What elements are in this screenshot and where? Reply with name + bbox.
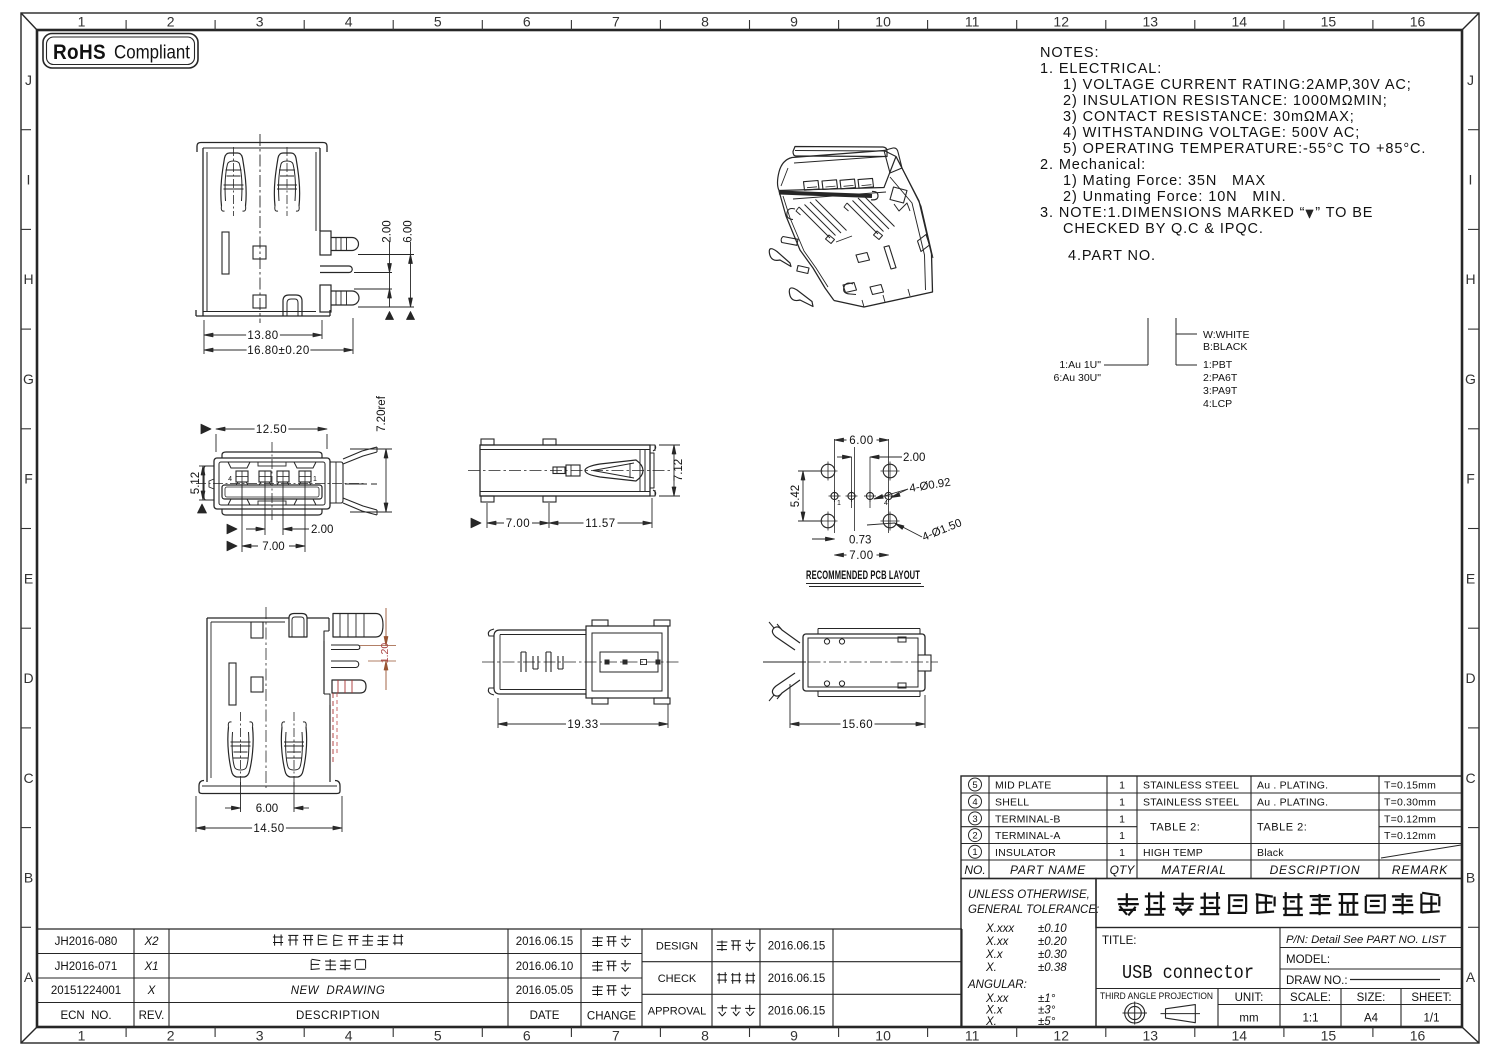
- svg-text:DESCRIPTION: DESCRIPTION: [296, 1010, 380, 1022]
- svg-text:±0.30: ±0.30: [1038, 949, 1067, 961]
- dimension 14.50: [196, 796, 342, 835]
- svg-text:±0.20: ±0.20: [1038, 936, 1067, 948]
- svg-text:19.33: 19.33: [567, 719, 598, 731]
- svg-text:2.00: 2.00: [311, 524, 333, 536]
- svg-text:8: 8: [701, 1028, 709, 1044]
- dimension 13.80: [204, 320, 322, 354]
- svg-text:Black: Black: [1257, 847, 1284, 859]
- dimension 12.50: [201, 424, 327, 452]
- company name block (Chinese): [1096, 879, 1462, 928]
- svg-text:5: 5: [434, 1028, 442, 1044]
- svg-text:1: 1: [837, 500, 841, 507]
- svg-text:2016.06.15: 2016.06.15: [768, 973, 826, 985]
- svg-text:4:LCP: 4:LCP: [1203, 398, 1232, 410]
- svg-text:6: 6: [523, 14, 531, 30]
- dimension 0.73: [812, 535, 871, 547]
- svg-text:B: B: [1466, 870, 1475, 886]
- svg-text:7.00: 7.00: [506, 518, 530, 530]
- svg-text:ECN NO.: ECN NO.: [60, 1010, 111, 1022]
- svg-text:±0.10: ±0.10: [1038, 923, 1067, 935]
- svg-text:4-Ø1.50: 4-Ø1.50: [921, 517, 964, 544]
- svg-text:D: D: [1465, 670, 1475, 686]
- svg-text:A: A: [24, 969, 34, 985]
- svg-text:13.80: 13.80: [247, 330, 278, 342]
- svg-text:REV.: REV.: [139, 1010, 165, 1022]
- svg-text:4: 4: [345, 1028, 353, 1044]
- general tolerance block: [961, 879, 1099, 1029]
- svg-text:INSULATOR: INSULATOR: [995, 847, 1056, 859]
- svg-text:X.xx: X.xx: [985, 993, 1010, 1005]
- svg-text:CHECK: CHECK: [658, 973, 697, 985]
- svg-text:12: 12: [1053, 1028, 1069, 1044]
- svg-text:JH2016-080: JH2016-080: [55, 936, 118, 948]
- svg-text:QTY: QTY: [1110, 863, 1136, 877]
- svg-text:14: 14: [1232, 14, 1248, 30]
- svg-text:9: 9: [790, 14, 798, 30]
- svg-text:JH2016-071: JH2016-071: [55, 961, 118, 973]
- svg-text:2: 2: [167, 1028, 175, 1044]
- svg-text:12: 12: [1053, 14, 1069, 30]
- dimension 2.00 contact pitch: [227, 482, 333, 552]
- svg-text:1: 1: [1119, 797, 1125, 809]
- svg-text:11: 11: [965, 14, 980, 30]
- svg-text:10: 10: [875, 14, 891, 30]
- svg-text:4: 4: [884, 500, 888, 507]
- svg-text:E: E: [24, 570, 33, 586]
- svg-text:1/1: 1/1: [1424, 1013, 1440, 1025]
- svg-text:1: 1: [78, 14, 86, 30]
- svg-text:15: 15: [1321, 14, 1337, 30]
- svg-text:16: 16: [1410, 14, 1426, 30]
- svg-text:11: 11: [965, 1028, 980, 1044]
- svg-text:12.50: 12.50: [256, 424, 287, 436]
- svg-text:GENERAL TOLERANCE:: GENERAL TOLERANCE:: [968, 904, 1099, 916]
- svg-text:E: E: [1466, 570, 1475, 586]
- svg-text:±1°: ±1°: [1038, 993, 1056, 1005]
- svg-text:DATE: DATE: [530, 1010, 560, 1022]
- svg-text:2) Unmating Force: 10N MIN.: 2) Unmating Force: 10N MIN.: [1063, 189, 1287, 205]
- svg-text:J: J: [25, 72, 32, 88]
- svg-text:T=0.30mm: T=0.30mm: [1384, 797, 1436, 809]
- svg-text:1: 1: [1119, 830, 1125, 842]
- rear side elevation view: [199, 607, 383, 794]
- svg-text:11.57: 11.57: [585, 518, 615, 530]
- svg-text:5) OPERATING TEMPERATURE:-55°C: 5) OPERATING TEMPERATURE:-55°C TO +85°C.: [1063, 141, 1426, 157]
- svg-text:1: 1: [1119, 813, 1125, 825]
- svg-text:Au . PLATING.: Au . PLATING.: [1257, 797, 1328, 809]
- svg-text:±5°: ±5°: [1038, 1016, 1056, 1028]
- svg-text:F: F: [24, 471, 33, 487]
- svg-text:X: X: [147, 985, 157, 997]
- svg-text:1) Mating Force: 35N MAX: 1) Mating Force: 35N MAX: [1063, 173, 1266, 189]
- notes text block: [1040, 45, 1426, 264]
- dimension 16.80±0.20: [204, 318, 353, 357]
- svg-text:SCALE:: SCALE:: [1290, 992, 1331, 1004]
- svg-text:7: 7: [612, 14, 620, 30]
- svg-text:X.xx: X.xx: [985, 936, 1010, 948]
- svg-text:G: G: [23, 371, 34, 387]
- svg-text:±0.38: ±0.38: [1038, 962, 1067, 974]
- dimension 6.00 hole pitch: [835, 435, 889, 447]
- svg-text:3:PA9T: 3:PA9T: [1203, 385, 1238, 397]
- svg-text:5: 5: [434, 14, 442, 30]
- svg-text:7.00: 7.00: [262, 541, 284, 553]
- svg-text:DESCRIPTION: DESCRIPTION: [1270, 863, 1361, 877]
- svg-text:A4: A4: [1364, 1013, 1379, 1025]
- dimension 6.00 contact spacing: [225, 782, 309, 815]
- svg-text:X.: X.: [985, 962, 997, 974]
- svg-text:MATERIAL: MATERIAL: [1161, 863, 1227, 877]
- svg-text:W:WHITE: W:WHITE: [1203, 329, 1249, 341]
- svg-text:1:PBT: 1:PBT: [1203, 359, 1233, 371]
- svg-text:ANGULAR:: ANGULAR:: [967, 979, 1027, 991]
- dimension 5.12: [190, 466, 210, 513]
- svg-text:3. NOTE:1.DIMENSIONS MARKED “: 3. NOTE:1.DIMENSIONS MARKED “ ” TO BE: [1040, 205, 1373, 221]
- svg-text:P/N: Detail See PART NO. LIST: P/N: Detail See PART NO. LIST: [1286, 934, 1447, 946]
- svg-text:14: 14: [1232, 1028, 1248, 1044]
- svg-text:5.12: 5.12: [190, 472, 202, 494]
- svg-text:16.80±0.20: 16.80±0.20: [247, 345, 309, 357]
- svg-text:X1: X1: [143, 961, 158, 973]
- svg-text:TABLE 2:: TABLE 2:: [1150, 822, 1200, 834]
- svg-text:T=0.12mm: T=0.12mm: [1384, 830, 1436, 842]
- dimension 7.00 contact span: [227, 540, 305, 553]
- svg-text:1) VOLTAGE CURRENT RATING:2AMP: 1) VOLTAGE CURRENT RATING:2AMP,30V AC;: [1063, 77, 1412, 93]
- svg-text:1. ELECTRICAL:: 1. ELECTRICAL:: [1040, 61, 1162, 77]
- svg-text:CHECKED BY Q.C & IPQC.: CHECKED BY Q.C & IPQC.: [1063, 221, 1264, 237]
- svg-text:SIZE:: SIZE:: [1357, 992, 1386, 1004]
- svg-text:T=0.15mm: T=0.15mm: [1384, 780, 1436, 792]
- svg-text:RoHS: RoHS: [53, 41, 106, 64]
- svg-text:RECOMMENDED PCB LAYOUT: RECOMMENDED PCB LAYOUT: [806, 570, 920, 582]
- svg-text:NOTES:: NOTES:: [1040, 45, 1099, 61]
- svg-text:1.20: 1.20: [379, 643, 391, 664]
- svg-text:15: 15: [1321, 1028, 1337, 1044]
- svg-text:7.12: 7.12: [673, 459, 685, 481]
- svg-text:DESIGN: DESIGN: [656, 940, 698, 952]
- svg-text:HIGH TEMP: HIGH TEMP: [1143, 847, 1203, 859]
- svg-text:SHEET:: SHEET:: [1411, 992, 1451, 1004]
- svg-text:20151224001: 20151224001: [51, 985, 121, 997]
- svg-text:1: 1: [313, 476, 317, 483]
- svg-text:I: I: [27, 172, 31, 188]
- svg-text:7.00: 7.00: [849, 550, 873, 562]
- svg-text:CHANGE: CHANGE: [587, 1011, 637, 1023]
- dimension 19.33: [498, 698, 668, 731]
- bottom plan view of USB connector: [482, 620, 680, 704]
- svg-text:3: 3: [972, 814, 977, 825]
- svg-text:mm: mm: [1239, 1013, 1258, 1025]
- dimension 5.42: [790, 471, 823, 521]
- svg-text:1:Au 1U": 1:Au 1U": [1059, 359, 1101, 371]
- svg-text:MID PLATE: MID PLATE: [995, 780, 1051, 792]
- RoHS Compliant badge: [43, 34, 198, 69]
- svg-text:2016.05.05: 2016.05.05: [516, 985, 574, 997]
- svg-text:A: A: [1466, 969, 1476, 985]
- svg-text:9: 9: [790, 1028, 798, 1044]
- svg-text:PART NAME: PART NAME: [1010, 863, 1086, 877]
- svg-text:7: 7: [612, 1028, 620, 1044]
- svg-text:H: H: [1465, 271, 1475, 287]
- svg-text:UNLESS OTHERWISE,: UNLESS OTHERWISE,: [968, 889, 1090, 901]
- svg-text:Au . PLATING.: Au . PLATING.: [1257, 780, 1328, 792]
- svg-text:2016.06.15: 2016.06.15: [516, 936, 574, 948]
- svg-text:REMARK: REMARK: [1392, 863, 1448, 877]
- recommended PCB layout view: [819, 439, 900, 533]
- leader 4-Ø1.50: [867, 517, 964, 544]
- svg-text:SHELL: SHELL: [995, 797, 1029, 809]
- dimension 6.00 pin span: [403, 220, 415, 319]
- svg-text:APPROVAL: APPROVAL: [648, 1006, 707, 1018]
- svg-text:1: 1: [972, 847, 977, 858]
- title block: [1096, 928, 1462, 1027]
- svg-text:10: 10: [875, 1028, 891, 1044]
- svg-text:4: 4: [345, 14, 353, 30]
- svg-text:1:1: 1:1: [1303, 1013, 1319, 1025]
- svg-text:15.60: 15.60: [842, 719, 873, 731]
- svg-text:13: 13: [1143, 14, 1159, 30]
- svg-text:TITLE:: TITLE:: [1102, 935, 1137, 947]
- svg-text:2. Mechanical:: 2. Mechanical:: [1040, 157, 1146, 173]
- svg-text:14.50: 14.50: [253, 823, 284, 835]
- svg-text:2016.06.15: 2016.06.15: [768, 940, 826, 952]
- svg-text:2016.06.15: 2016.06.15: [768, 1006, 826, 1018]
- svg-text:X2: X2: [143, 936, 159, 948]
- svg-text:2: 2: [972, 831, 977, 842]
- svg-text:5: 5: [972, 780, 977, 791]
- svg-text:4) WITHSTANDING VOLTAGE: 500V: 4) WITHSTANDING VOLTAGE: 500V AC;: [1063, 125, 1360, 141]
- svg-text:5.42: 5.42: [790, 485, 802, 507]
- svg-text:D: D: [23, 670, 33, 686]
- top plan view of USB connector: [468, 439, 672, 502]
- svg-text:2: 2: [167, 14, 175, 30]
- revision history table: [38, 929, 962, 1027]
- svg-text:TERMINAL-B: TERMINAL-B: [995, 813, 1061, 825]
- svg-text:6.00: 6.00: [849, 435, 873, 447]
- dimension 7.00 pcb: [835, 550, 889, 562]
- svg-text:4: 4: [972, 797, 977, 808]
- svg-text:2016.06.10: 2016.06.10: [516, 961, 574, 973]
- svg-text:2:PA6T: 2:PA6T: [1203, 372, 1238, 384]
- svg-text:B: B: [24, 870, 33, 886]
- svg-text:6:Au 30U": 6:Au 30U": [1053, 372, 1101, 384]
- svg-text:T=0.12mm: T=0.12mm: [1384, 813, 1436, 825]
- parts list table: [961, 776, 1462, 879]
- svg-text:X.: X.: [985, 1016, 997, 1028]
- isometric view of USB connector: [769, 147, 933, 308]
- svg-text:±3°: ±3°: [1038, 1005, 1056, 1017]
- svg-text:X.xxx: X.xxx: [985, 923, 1015, 935]
- svg-text:1: 1: [1119, 780, 1125, 792]
- svg-text:2.00: 2.00: [903, 452, 925, 464]
- svg-text:13: 13: [1143, 1028, 1159, 1044]
- svg-text:TERMINAL-A: TERMINAL-A: [995, 830, 1061, 842]
- dimension 1.20: [360, 608, 396, 690]
- dimension 2.00 pcb: [837, 452, 925, 464]
- svg-text:1: 1: [1119, 847, 1125, 859]
- svg-text:I: I: [1469, 172, 1473, 188]
- svg-text:Compliant: Compliant: [114, 42, 190, 64]
- svg-text:4: 4: [228, 476, 232, 483]
- svg-text:16: 16: [1410, 1028, 1426, 1044]
- svg-text:3: 3: [256, 14, 264, 30]
- side elevation view of USB connector: [196, 134, 359, 323]
- svg-text:X.x: X.x: [985, 1005, 1004, 1017]
- svg-text:STAINLESS STEEL: STAINLESS STEEL: [1143, 780, 1239, 792]
- front face view of USB connector: [196, 442, 377, 521]
- svg-text:3) CONTACT RESISTANCE: 30mΩMAX: 3) CONTACT RESISTANCE: 30mΩMAX;: [1063, 109, 1355, 125]
- svg-text:NO.: NO.: [964, 863, 985, 877]
- svg-text:B:BLACK: B:BLACK: [1203, 341, 1247, 353]
- svg-text:6.00: 6.00: [403, 220, 415, 242]
- rear elevation view: [763, 622, 938, 701]
- svg-text:G: G: [1465, 371, 1476, 387]
- svg-text:4-Ø0.92: 4-Ø0.92: [909, 477, 952, 495]
- dimension 2.00 pin pitch: [354, 220, 414, 319]
- svg-text:X.x: X.x: [985, 949, 1004, 961]
- dimension 7.12: [659, 445, 685, 496]
- leader 4-Ø0.92: [874, 477, 952, 499]
- svg-text:3: 3: [256, 1028, 264, 1044]
- svg-text:STAINLESS STEEL: STAINLESS STEEL: [1143, 797, 1239, 809]
- svg-text:C: C: [23, 770, 33, 786]
- svg-text:6: 6: [523, 1028, 531, 1044]
- svg-text:C: C: [1465, 770, 1475, 786]
- svg-text:MODEL:: MODEL:: [1286, 954, 1330, 966]
- svg-text:2) INSULATION RESISTANCE: 1000: 2) INSULATION RESISTANCE: 1000MΩMIN;: [1063, 93, 1388, 109]
- svg-text:J: J: [1467, 72, 1474, 88]
- svg-text:4.PART NO.: 4.PART NO.: [1068, 248, 1156, 264]
- svg-text:USB connector: USB connector: [1122, 962, 1254, 984]
- svg-text:7.20ref: 7.20ref: [376, 395, 388, 432]
- svg-text:1: 1: [78, 1028, 86, 1044]
- svg-text:NEW DRAWING: NEW DRAWING: [291, 985, 386, 997]
- dimension 15.60: [790, 684, 925, 731]
- dimension 7.20ref: [350, 395, 392, 512]
- svg-text:THIRD ANGLE PROJECTION: THIRD ANGLE PROJECTION: [1100, 991, 1213, 1001]
- svg-text:H: H: [23, 271, 33, 287]
- svg-text:0.73: 0.73: [849, 535, 871, 547]
- part number legend tree: [1053, 318, 1249, 410]
- svg-text:8: 8: [701, 14, 709, 30]
- svg-text:2.00: 2.00: [382, 220, 394, 242]
- dimension 7.00 and 11.57: [471, 498, 652, 530]
- svg-text:TABLE 2:: TABLE 2:: [1257, 822, 1307, 834]
- svg-text:DRAW NO.:: DRAW NO.:: [1286, 975, 1348, 987]
- svg-text:6.00: 6.00: [256, 803, 278, 815]
- svg-text:F: F: [1466, 471, 1475, 487]
- caption RECOMMENDED PCB LAYOUT: [806, 570, 924, 587]
- svg-text:UNIT:: UNIT:: [1235, 992, 1264, 1004]
